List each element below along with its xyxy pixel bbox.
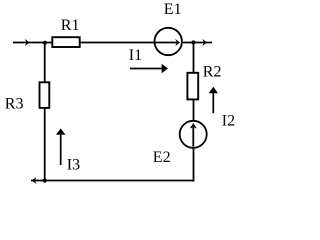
node B junction dot top-right bbox=[191, 40, 195, 44]
wire left branch lower bbox=[44, 109, 46, 181]
node C junction dot bottom-left bbox=[43, 178, 47, 182]
terminal arrow right output bbox=[202, 39, 207, 46]
current arrow I2 bbox=[212, 93, 214, 114]
E1 internal arrow bbox=[155, 42, 177, 44]
svg-text:I3: I3 bbox=[67, 157, 80, 174]
resistor R3 bbox=[40, 82, 50, 108]
svg-text:I1: I1 bbox=[129, 47, 142, 64]
wire E2 to bottom bbox=[193, 148, 195, 182]
wire R2 to E2 bbox=[193, 100, 195, 122]
wire E1 to node B bbox=[182, 42, 212, 44]
svg-text:R3: R3 bbox=[5, 96, 24, 113]
svg-text:R2: R2 bbox=[203, 64, 222, 81]
svg-text:R1: R1 bbox=[61, 17, 80, 34]
current arrow I1 bbox=[130, 68, 162, 70]
resistor R1 bbox=[52, 37, 79, 47]
wire bottom bbox=[31, 180, 194, 182]
wire R1 to E1 bbox=[80, 42, 155, 44]
EMF source E2 bbox=[180, 121, 207, 148]
wire top-left lead bbox=[13, 42, 52, 44]
svg-text:E1: E1 bbox=[164, 1, 182, 18]
E2 internal arrow bbox=[192, 127, 194, 147]
resistor R2 bbox=[187, 73, 198, 100]
wire right branch upper bbox=[193, 43, 195, 73]
current arrow I3 bbox=[60, 134, 62, 165]
node A junction dot top-left bbox=[43, 41, 47, 45]
svg-text:E2: E2 bbox=[153, 149, 171, 166]
svg-text:I2: I2 bbox=[222, 113, 235, 130]
EMF source E1 bbox=[155, 28, 182, 55]
terminal arrow bottom-left bbox=[32, 177, 37, 184]
wire left branch upper bbox=[44, 43, 46, 83]
terminal arrow left input bbox=[25, 39, 30, 46]
